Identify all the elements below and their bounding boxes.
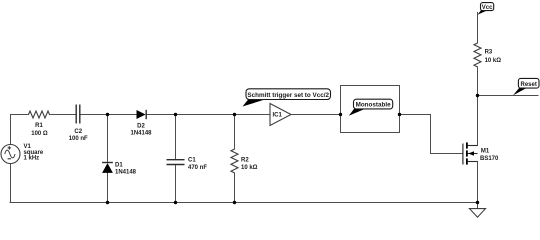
svg-text:D1: D1: [115, 162, 123, 168]
resistor R1: [29, 111, 50, 118]
node junction dot reset/drain: [476, 94, 479, 97]
wire Vcc to R3: [477, 13, 479, 44]
svg-text:R2: R2: [241, 158, 249, 164]
svg-text:R1: R1: [35, 123, 43, 129]
node junction dot C1 bottom: [174, 201, 177, 204]
svg-text:C2: C2: [74, 129, 82, 135]
svg-text:IC1: IC1: [273, 113, 283, 119]
wire D1 branch upper: [107, 115, 109, 163]
callout: Schmitt trigger set to Vcc/2: [243, 89, 331, 107]
svg-text:1N4148: 1N4148: [115, 170, 137, 176]
svg-text:R3: R3: [485, 49, 493, 55]
svg-text:10 kΩ: 10 kΩ: [485, 58, 502, 64]
wire R2 branch lower: [234, 173, 236, 203]
wire R2 branch upper: [234, 115, 236, 150]
svg-text:D2: D2: [137, 124, 145, 130]
svg-text:1 kHz: 1 kHz: [24, 156, 40, 162]
wire R1 to C2: [50, 114, 77, 116]
wire top-left from V1 up and right to R1: [11, 115, 29, 145]
svg-text:10 kΩ: 10 kΩ: [241, 165, 258, 171]
capacitor C1: [167, 160, 185, 165]
node junction dot C1 top: [174, 113, 177, 116]
wire M1 source to bottom rail: [477, 162, 479, 209]
node junction dot monostable output: [398, 113, 401, 116]
svg-text:BS170: BS170: [480, 156, 499, 162]
node junction dot R2 bottom: [233, 201, 236, 204]
callout: Reset: [513, 78, 539, 95]
node junction dot monostable input: [339, 113, 342, 116]
gate bar: [462, 144, 464, 165]
svg-text:Reset: Reset: [521, 82, 537, 88]
svg-text:Schmitt trigger set to Vcc/2: Schmitt trigger set to Vcc/2: [247, 92, 329, 99]
callout: Monostable: [349, 99, 393, 116]
wire reset net: [478, 95, 539, 97]
wire C1 branch upper: [175, 115, 177, 160]
wire V1 bottom to bottom rail: [10, 164, 12, 203]
svg-text:100 Ω: 100 Ω: [31, 131, 48, 137]
svg-text:Vcc: Vcc: [482, 5, 493, 11]
node junction dot D1 bottom: [106, 201, 109, 204]
transistor M1 (NMOS BS170): [463, 142, 478, 164]
monostable box: [341, 86, 400, 133]
svg-text:M1: M1: [481, 149, 490, 155]
op-amp buffer IC1: [270, 104, 291, 126]
resistor R3: [474, 43, 481, 67]
wire C2 to D2 with junction at node A: [80, 114, 137, 116]
node junction dot R2 top: [233, 113, 236, 116]
wire IC1 output to monostable: [291, 114, 340, 116]
resistor R2: [231, 149, 238, 173]
svg-text:470 nF: 470 nF: [188, 165, 207, 171]
diode D2: [137, 110, 147, 119]
diode D1: [102, 163, 113, 173]
svg-text:1N4148: 1N4148: [130, 130, 152, 136]
wire D1 branch lower: [107, 173, 109, 203]
capacitor C2: [76, 105, 80, 124]
node junction dot ground: [476, 201, 479, 204]
node A junction dot (C2/D2/D1): [106, 113, 109, 116]
leads: [468, 145, 478, 147]
wire C1 branch lower: [175, 165, 177, 203]
channel segments: [466, 142, 468, 148]
wire D2 cathode to IC1 input: [146, 114, 270, 116]
wire R3 to M1 drain: [477, 67, 479, 146]
ground: [470, 209, 486, 218]
body arrow: [468, 151, 474, 156]
wire monostable output right, down, to M1 gate: [400, 115, 463, 154]
voltage source V1: [1, 145, 20, 164]
svg-text:100 nF: 100 nF: [69, 136, 88, 142]
callout: Vcc: [478, 3, 494, 15]
svg-text:Monostable: Monostable: [356, 102, 391, 109]
wire bottom rail: [10, 202, 478, 204]
svg-text:C1: C1: [188, 158, 196, 164]
